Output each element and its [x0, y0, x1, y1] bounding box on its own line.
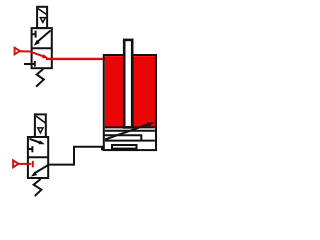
- red supply stub into V2: [18, 163, 31, 165]
- cylinder red fill: [105, 56, 155, 127]
- valve V2 pilot box: [35, 114, 46, 137]
- red wire V1 to cylinder: [46, 58, 105, 60]
- valve V1 top box exhaust arrow: [36, 31, 50, 43]
- valve V2 pilot triangle: [38, 128, 43, 133]
- valve V2 closed supply red bar: [32, 161, 34, 168]
- cushion adjust arrow: [105, 124, 149, 139]
- valve V2 top box flow arrow: [30, 139, 41, 143]
- valve V1 top box closed-port T: [32, 31, 36, 38]
- valve V1 red flow path: [31, 52, 45, 57]
- valve V1 body: [32, 28, 52, 68]
- cylinder barrel: [104, 55, 156, 150]
- red supply stub into V1: [20, 50, 31, 52]
- valve V1 pilot triangle: [40, 18, 45, 23]
- compressed air source P2 (red triangle): [13, 160, 18, 167]
- piston line B: [105, 130, 155, 132]
- valve V2 mid line: [28, 156, 48, 158]
- valve V2 body: [28, 137, 48, 178]
- cushion line D: [105, 140, 155, 142]
- compressed air source P1 (red triangle): [15, 48, 20, 55]
- valve V2 bottom box exhaust arrow: [34, 165, 48, 174]
- valve V1 pilot box: [37, 7, 47, 28]
- wire V2 output to cylinder bottom port: [49, 147, 102, 165]
- piston line A: [105, 126, 155, 128]
- valve V2 pilot diagonal: [36, 116, 45, 123]
- cushion line C: [104, 135, 142, 140]
- valve V2 spring return: [34, 179, 42, 196]
- valve V1 bottom box exhaust T: [24, 61, 35, 67]
- valve V1 spring return: [36, 69, 44, 87]
- valve V2 top box closed-port T: [28, 146, 32, 152]
- cushion pocket rect: [112, 145, 137, 149]
- valve V1 pilot diagonal: [38, 9, 47, 15]
- valve V1 (3/2-way pneumatic valve, actuated): [32, 7, 52, 68]
- valve V1 mid line: [32, 47, 52, 49]
- piston rod: [124, 40, 132, 128]
- valve V2 (3/2-way pneumatic valve, rest position): [28, 114, 48, 178]
